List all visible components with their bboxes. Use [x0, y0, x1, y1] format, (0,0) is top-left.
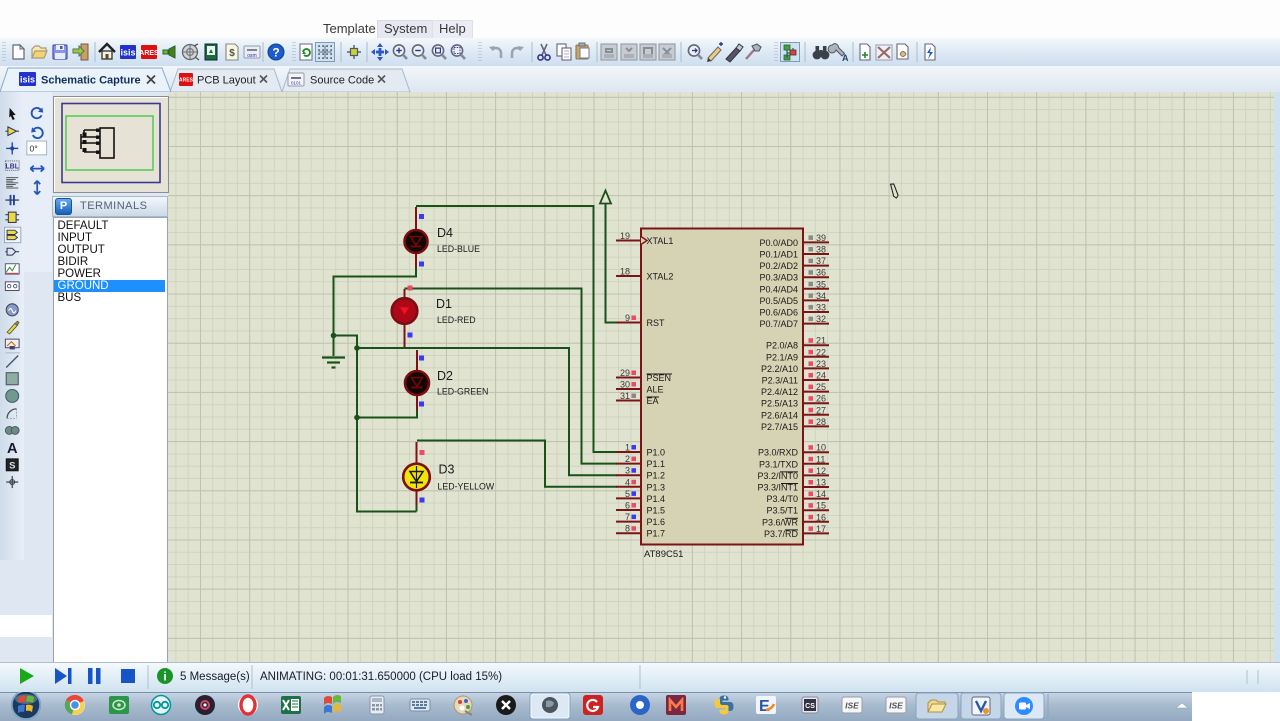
start orb	[11, 690, 41, 720]
pin 36 P0.3/AD3	[759, 268, 829, 283]
pin 1 P1.0	[616, 443, 665, 458]
logic marker	[419, 402, 424, 407]
left sidebar background	[0, 92, 168, 662]
svg-text:LED-YELLOW: LED-YELLOW	[438, 482, 495, 492]
svg-text:isis: isis	[20, 75, 35, 85]
svg-text:P1.0: P1.0	[647, 448, 666, 458]
play button	[20, 668, 34, 684]
E orange	[756, 696, 776, 715]
tab bar	[0, 66, 1280, 93]
svg-text:0101: 0101	[291, 81, 302, 86]
pin 3 P1.2	[616, 466, 665, 481]
svg-text:P0.6/AD6: P0.6/AD6	[759, 308, 798, 318]
svg-text:29: 29	[620, 368, 630, 378]
tab: PCB Layout	[170, 69, 282, 92]
pin 27 P2.6/A14	[761, 405, 829, 420]
wire power terminal to RST	[606, 204, 618, 323]
right edge strip	[1274, 92, 1280, 662]
wire ground stub	[333, 336, 335, 357]
svg-text:PCB Layout: PCB Layout	[197, 75, 256, 87]
logic marker	[408, 286, 413, 291]
pin 37 P0.2/AD2	[759, 256, 829, 271]
LED D3 (yellow, on)	[403, 464, 430, 491]
pin 14 P3.4/T0	[766, 489, 829, 504]
svg-text:P3.5/T1: P3.5/T1	[766, 506, 798, 516]
pin 16 P3.6/WR	[762, 512, 829, 527]
svg-text:30: 30	[620, 380, 630, 390]
pin 5 P1.4	[616, 489, 665, 504]
svg-text:2: 2	[625, 454, 630, 464]
pin 25 P2.4/A12	[761, 382, 829, 397]
pin 31 EA	[616, 391, 659, 406]
svg-text:5: 5	[625, 489, 630, 499]
svg-text:ARES: ARES	[139, 50, 159, 57]
svg-text:33: 33	[816, 303, 826, 313]
svg-text:15: 15	[816, 501, 826, 511]
svg-text:P1.3: P1.3	[647, 482, 666, 492]
tab: Source Code	[282, 69, 410, 92]
svg-text:ALE: ALE	[647, 385, 664, 395]
svg-text:P0.4/AD4: P0.4/AD4	[759, 284, 798, 294]
pin 15 P3.5/T1	[766, 501, 829, 516]
svg-text:XTAL2: XTAL2	[647, 272, 674, 282]
svg-text:P1.5: P1.5	[647, 506, 666, 516]
svg-text:32: 32	[816, 314, 826, 324]
pin 9 RST	[616, 313, 665, 328]
svg-text:28: 28	[816, 417, 826, 427]
svg-text:LED-BLUE: LED-BLUE	[437, 244, 480, 254]
svg-text:ISE: ISE	[889, 701, 903, 711]
junction dot A	[331, 333, 337, 339]
svg-text:Source Code: Source Code	[310, 75, 374, 87]
pin 26 P2.5/A13	[761, 394, 829, 409]
svg-text:35: 35	[816, 279, 826, 289]
svg-text:23: 23	[816, 359, 826, 369]
svg-text:P3.4/T0: P3.4/T0	[766, 494, 798, 504]
pin 35 P0.4/AD4	[759, 279, 829, 294]
M icon	[666, 695, 686, 715]
svg-text:P2.5/A13: P2.5/A13	[761, 399, 798, 409]
svg-text:P0.0/AD0: P0.0/AD0	[759, 238, 798, 248]
V window	[961, 693, 1001, 719]
svg-text:36: 36	[816, 268, 826, 278]
svg-text:P1.4: P1.4	[647, 494, 666, 504]
pin 8 P1.7	[616, 524, 665, 539]
ISE 2	[886, 697, 906, 713]
wire D3 cathode	[416, 504, 418, 512]
logic marker	[420, 450, 425, 455]
keyboard	[410, 699, 430, 711]
svg-text:P1.2: P1.2	[647, 471, 666, 481]
green app	[109, 696, 129, 714]
D3 pins	[416, 442, 418, 505]
tab: Schematic Capture (active)	[0, 68, 171, 92]
svg-text:AT89C51: AT89C51	[644, 549, 683, 560]
logic marker	[420, 498, 425, 503]
svg-text:19: 19	[620, 231, 630, 241]
pin 29 PSEN	[616, 368, 672, 383]
svg-text:1: 1	[625, 443, 630, 453]
svg-text:P3.0/RXD: P3.0/RXD	[758, 448, 799, 458]
wire ground node to mid rail	[334, 336, 358, 350]
svg-text:D2: D2	[437, 369, 453, 383]
dark circle red	[195, 695, 215, 715]
wire vertical rail	[357, 348, 417, 512]
wire D4 cathode to ground rail	[334, 266, 417, 336]
toolbar	[0, 38, 1280, 67]
svg-text:P0.3/AD3: P0.3/AD3	[759, 273, 798, 283]
wire D2 cathode	[357, 409, 417, 418]
svg-text:ANIMATING: 00:01:31.650000 (CP: ANIMATING: 00:01:31.650000 (CPU load 15%…	[260, 671, 502, 683]
taskbar	[0, 692, 1192, 721]
svg-text:18: 18	[620, 267, 630, 277]
svg-text:D1: D1	[436, 297, 452, 311]
arduino	[151, 695, 171, 715]
svg-text:5 Message(s): 5 Message(s)	[180, 671, 250, 683]
schematic grid area	[168, 92, 1280, 662]
svg-text:XTAL1: XTAL1	[647, 236, 674, 246]
tray arrow	[1176, 703, 1188, 708]
svg-text:P2.2/A10: P2.2/A10	[761, 364, 798, 374]
info icon	[157, 668, 173, 684]
junction dot C	[354, 415, 360, 421]
red G app	[583, 695, 603, 715]
pin 24 P2.3/A11	[762, 371, 829, 386]
ground	[322, 358, 345, 368]
svg-text:P1.6: P1.6	[647, 517, 666, 527]
active highlighted app	[530, 693, 570, 719]
svg-text:9: 9	[625, 313, 630, 323]
svg-text:10: 10	[816, 443, 826, 453]
pin 19 XTAL1	[616, 231, 673, 246]
pin 10 P3.0/RXD	[758, 443, 829, 458]
svg-text:D3: D3	[439, 463, 455, 477]
svg-text:P2.1/A9: P2.1/A9	[766, 352, 798, 362]
logic marker	[408, 333, 413, 338]
svg-text:34: 34	[816, 291, 826, 301]
pin 22 P2.1/A9	[766, 347, 829, 362]
pin 33 P0.6/AD6	[759, 303, 829, 318]
LED D2 (green, off)	[405, 371, 429, 395]
power terminal	[600, 191, 611, 204]
pin 4 P1.3	[616, 477, 665, 492]
ISE 1	[842, 697, 862, 713]
wire D1 anode to P1.1	[405, 289, 618, 464]
object preview box	[53, 96, 169, 193]
status bar	[0, 662, 1280, 693]
svg-text:CS: CS	[805, 703, 815, 710]
pin 11 P3.1/TXD	[759, 454, 829, 469]
black x circle	[496, 695, 516, 715]
pin 2 P1.1	[616, 454, 665, 469]
pencil cursor	[888, 183, 901, 198]
pin 12 P3.2/INT0	[757, 466, 829, 481]
svg-text:E: E	[759, 698, 770, 715]
svg-text:11: 11	[816, 454, 825, 464]
pin 23 P2.2/A10	[761, 359, 829, 374]
svg-text:17: 17	[816, 524, 826, 534]
svg-text:14: 14	[816, 489, 826, 499]
terminals listbox	[53, 217, 168, 664]
svg-text:A: A	[842, 53, 849, 63]
step button	[55, 668, 67, 684]
zoom window	[1004, 693, 1044, 719]
svg-text:16: 16	[816, 512, 826, 522]
pin 30 ALE	[616, 380, 664, 395]
svg-text:RST: RST	[647, 318, 666, 328]
svg-text:P2.4/A12: P2.4/A12	[761, 387, 798, 397]
D4 pins	[415, 207, 417, 268]
svg-text:26: 26	[816, 394, 826, 404]
svg-text:21: 21	[816, 336, 826, 346]
svg-text:P3.1/TXD: P3.1/TXD	[759, 459, 799, 469]
svg-text:P2.7/A15: P2.7/A15	[761, 422, 798, 432]
svg-text:Schematic Capture: Schematic Capture	[41, 75, 141, 87]
svg-text:12: 12	[816, 466, 826, 476]
paint	[454, 696, 472, 715]
menu bar	[0, 0, 1280, 38]
pin 32 P0.7/AD7	[759, 314, 829, 329]
svg-text:6: 6	[625, 501, 630, 511]
svg-text:39: 39	[816, 233, 826, 243]
svg-text:?: ?	[272, 46, 279, 60]
open folder window	[916, 693, 958, 719]
svg-text:P0.2/AD2: P0.2/AD2	[759, 261, 798, 271]
svg-text:P0.1/AD1: P0.1/AD1	[759, 250, 798, 260]
svg-text:3: 3	[625, 466, 630, 476]
svg-text:D4: D4	[437, 226, 453, 240]
svg-text:$: $	[229, 48, 235, 59]
pin 21 P2.0/A8	[766, 336, 829, 351]
LED D1 (red, on)	[392, 298, 418, 324]
svg-text:ISE: ISE	[845, 701, 859, 711]
logic marker	[419, 262, 424, 267]
pin 34 P0.5/AD5	[759, 291, 829, 306]
svg-text:37: 37	[816, 256, 826, 266]
opera	[238, 695, 258, 715]
svg-text:4: 4	[625, 477, 630, 487]
logic marker	[419, 214, 424, 219]
svg-text:P2.0/A8: P2.0/A8	[766, 341, 798, 351]
pin 38 P0.1/AD1	[759, 245, 829, 260]
svg-text:0°: 0°	[29, 143, 37, 153]
svg-text:LBL: LBL	[6, 164, 19, 171]
svg-text:25: 25	[816, 382, 826, 392]
svg-text:38: 38	[816, 245, 826, 255]
wire D4 anode to P1.0	[416, 206, 617, 452]
svg-text:P0.7/AD7: P0.7/AD7	[759, 319, 798, 329]
svg-text:31: 31	[620, 391, 630, 401]
pin 17 P3.7/RD	[764, 524, 829, 539]
pin 7 P1.6	[616, 512, 665, 527]
svg-text:osm: osm	[247, 53, 256, 59]
svg-text:A: A	[7, 441, 18, 457]
white band overlay on left	[0, 615, 52, 637]
pin 6 P1.5	[616, 501, 665, 516]
stop button	[121, 669, 135, 683]
pin 28 P2.7/A15	[761, 417, 829, 432]
svg-text:S: S	[9, 461, 15, 472]
wire D3 anode to P1.3	[417, 441, 617, 487]
svg-text:P2.6/A14: P2.6/A14	[761, 410, 798, 420]
LED D4 (blue, off)	[405, 230, 428, 253]
P TERMINALS header	[52, 196, 168, 217]
wire node chain D1 cathode / D2 anode to P1.2	[357, 348, 617, 475]
excel	[281, 696, 301, 714]
logic marker	[419, 356, 424, 361]
svg-text:P0.5/AD5: P0.5/AD5	[759, 296, 798, 306]
svg-text:isis: isis	[120, 48, 135, 58]
partial blue	[630, 695, 650, 715]
junction dot B	[354, 345, 360, 351]
chrome	[65, 695, 85, 715]
CS small	[802, 697, 818, 713]
D2 pins	[416, 350, 418, 410]
MCU U1 AT89C51 body	[641, 229, 803, 545]
calculator	[370, 696, 384, 714]
svg-text:13: 13	[816, 478, 826, 488]
pin 39 P0.0/AD0	[759, 233, 829, 248]
svg-text:LED-GREEN: LED-GREEN	[437, 387, 488, 397]
svg-text:8: 8	[625, 524, 630, 534]
pin 18 XTAL2	[616, 267, 673, 282]
svg-text:7: 7	[625, 512, 630, 522]
python	[715, 696, 734, 715]
pause button	[88, 668, 93, 684]
svg-text:LED-RED: LED-RED	[437, 315, 476, 325]
svg-text:27: 27	[816, 405, 826, 415]
svg-text:ARES: ARES	[179, 78, 194, 84]
svg-text:P2.3/A11: P2.3/A11	[762, 376, 798, 386]
svg-text:P1.7: P1.7	[647, 529, 666, 539]
D1 pins	[404, 289, 406, 347]
svg-text:P1.1: P1.1	[647, 459, 666, 469]
svg-text:24: 24	[816, 371, 826, 381]
svg-text:22: 22	[816, 347, 826, 357]
pin 13 P3.3/INT1	[757, 478, 829, 493]
windows logo	[324, 695, 341, 714]
svg-text:i: i	[163, 670, 166, 684]
